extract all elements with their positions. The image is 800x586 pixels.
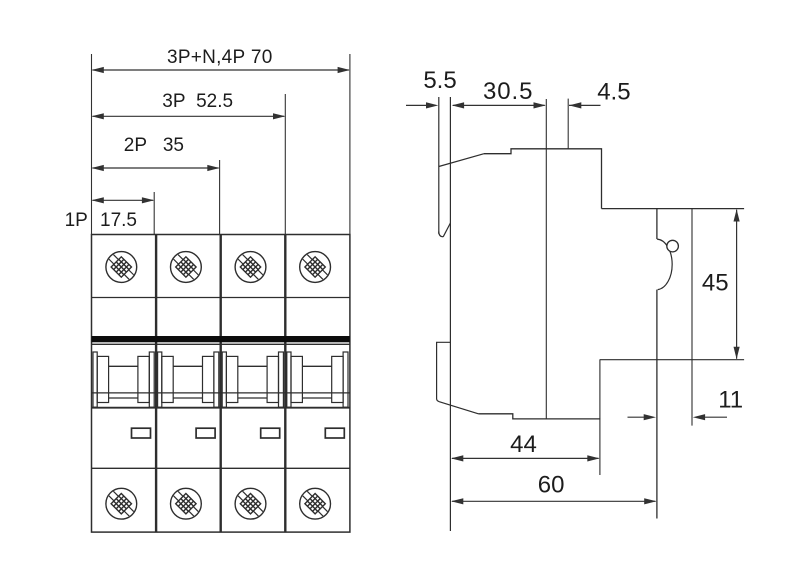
extension line left (x=91.5) [91, 54, 93, 235]
extension line right 70 (x=349.9) [349, 54, 351, 235]
pole 2 indicator window [196, 428, 215, 438]
pole 1 toggle handle [93, 352, 154, 407]
pole 3 indicator window [261, 428, 280, 438]
side view escutcheon outer face line [438, 97, 440, 234]
toggle recess bottom line [92, 392, 350, 394]
side view center division line [545, 99, 547, 419]
dimension line 35 [93, 167, 219, 169]
pole separator 3 [284, 235, 286, 533]
dimension line 60 [452, 500, 656, 502]
pole 4 top screw terminal [293, 245, 337, 289]
side view top-right horizontal edge y=208.6 [602, 208, 745, 210]
svg-text:45: 45 [702, 269, 729, 296]
pole 1 bottom screw terminal [100, 482, 144, 526]
side view top face step [484, 149, 602, 209]
pole separator 2 [219, 235, 221, 533]
pole 2 toggle handle [158, 352, 219, 407]
svg-text:11: 11 [718, 387, 743, 414]
side view back edge upper [656, 209, 658, 240]
svg-text:5.5: 5.5 [423, 67, 456, 94]
extension line 35 [219, 160, 221, 235]
svg-text:60: 60 [538, 471, 565, 498]
black label band [92, 336, 350, 342]
dimension line 44 [452, 457, 599, 459]
pole 3 top screw terminal [229, 245, 273, 289]
dimension 11 arrows [628, 416, 646, 418]
lower escutcheon strip [437, 342, 451, 402]
dimension line 30.5 [453, 104, 545, 106]
pole 4 indicator window [325, 428, 344, 438]
pole 2 bottom screw terminal [164, 482, 208, 526]
pole 3 bottom screw terminal [229, 482, 273, 526]
side view clip pin circle [667, 240, 679, 252]
4.5 extension line [567, 99, 569, 149]
toggle area bottom line [92, 407, 350, 409]
side view recess bottom line y=359.7 [600, 359, 745, 361]
top terminal divider line [92, 297, 350, 299]
svg-text:3P 52.5: 3P 52.5 [162, 91, 233, 112]
side view back notch bulge [657, 239, 672, 290]
pole 3 toggle handle [222, 352, 283, 407]
svg-text:3P+N,4P 70: 3P+N,4P 70 [167, 47, 273, 68]
pole 4 toggle handle [287, 352, 348, 407]
extension line 17.5 [153, 192, 155, 235]
pole 1 top screw terminal [100, 245, 144, 289]
side view bottom face [478, 414, 600, 419]
side view main front face line [449, 97, 451, 531]
side view back edge lower [656, 290, 658, 519]
svg-text:4.5: 4.5 [597, 79, 630, 106]
dimension line 17.5 [93, 199, 154, 201]
bottom terminal divider line [92, 467, 350, 469]
pole 1 indicator window [132, 428, 151, 438]
dimension 4.5 arrow [569, 104, 601, 106]
pole 4 bottom screw terminal [293, 482, 337, 526]
DIN rail plane line x=692 [691, 209, 693, 426]
dimension line 70 [93, 69, 349, 71]
dimension 5.5 arrow [406, 104, 428, 106]
extension line 52.5 [284, 94, 286, 235]
front view body outline [92, 235, 350, 533]
pole separator 1 [155, 235, 157, 533]
line under label band [92, 343, 350, 345]
escutcheon diagonal cut upper [443, 223, 450, 237]
pole 2 top screw terminal [164, 245, 208, 289]
svg-text:44: 44 [510, 431, 537, 458]
svg-text:30.5: 30.5 [483, 78, 533, 105]
svg-text:17.5: 17.5 [100, 210, 137, 231]
side view top bevel diagonal [439, 154, 484, 167]
svg-text:1P: 1P [65, 210, 88, 231]
44 extension vertical [599, 360, 601, 475]
dimension line 45 [736, 210, 738, 359]
dimension line 52.5 [93, 115, 285, 117]
side view bottom bevel diagonal [440, 402, 479, 414]
escutcheon bottom corner [439, 232, 443, 237]
svg-text:2P 35: 2P 35 [124, 135, 184, 156]
